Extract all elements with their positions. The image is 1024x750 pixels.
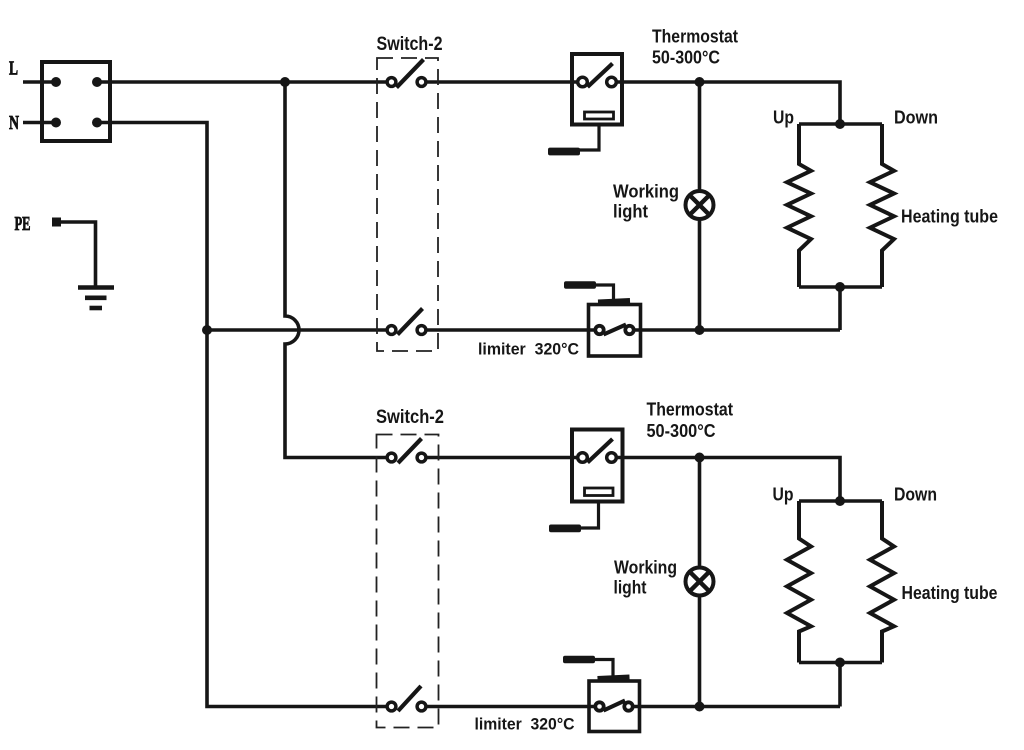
svg-text:Up: Up — [773, 485, 794, 505]
svg-text:Heating tube: Heating tube — [902, 583, 998, 603]
lamp HL1 (working light) — [686, 191, 714, 219]
wire row4 segment B — [427, 705, 594, 709]
thermostat T1 sensor bulb — [548, 148, 580, 156]
node HT1 top feed — [835, 119, 845, 129]
thermostat T2 contacts and lever — [578, 439, 617, 463]
switch S2 pole 1 contacts and lever — [387, 439, 426, 464]
wire row2 segment B — [427, 328, 594, 332]
PE terminal dot — [52, 218, 61, 227]
resistor HT1 Down element — [870, 124, 894, 287]
svg-text:Working: Working — [613, 182, 679, 202]
thermostat T1 capillary wire — [579, 125, 599, 151]
thermostat T2 adjustment bar — [585, 488, 614, 496]
svg-text:light: light — [613, 202, 648, 222]
svg-text:Heating tube: Heating tube — [901, 207, 998, 227]
switch S1 (Switch-2 upper, dashed enclosure) — [377, 58, 438, 351]
switch S2 pole 2 contacts and lever — [387, 686, 426, 711]
node HT2 top feed — [835, 496, 845, 506]
wire heating tube 1 bottom feed — [838, 287, 842, 330]
wire row1 L bus segment C with corner to heating tube 1 — [617, 82, 841, 124]
svg-text:L: L — [9, 58, 18, 80]
lamp HL2 (working light) — [686, 568, 714, 596]
limiter F1 button lid — [598, 301, 630, 303]
switch S1 pole 2 contacts and lever — [387, 309, 426, 335]
svg-text:Working: Working — [614, 558, 677, 578]
wire L input stub — [23, 80, 56, 84]
switch S1 pole 1 contacts and lever — [387, 60, 426, 88]
svg-text:Up: Up — [773, 108, 794, 128]
svg-text:N: N — [9, 112, 19, 134]
ground symbol — [78, 288, 114, 309]
wire row3 segment B — [427, 456, 578, 460]
node lamp1 top junction — [695, 77, 705, 87]
heating tube HT2 top bus — [799, 499, 882, 503]
node HT2 bottom feed — [835, 658, 845, 668]
node lamp1 bottom junction — [695, 325, 705, 335]
svg-text:Down: Down — [894, 108, 938, 128]
heating tube HT1 top bus — [799, 122, 882, 126]
wire lamp2 branch lower — [698, 597, 702, 707]
limiter F2 contacts and lever — [595, 701, 632, 711]
terminal block TB1 — [42, 62, 110, 141]
svg-text:light: light — [614, 578, 647, 598]
svg-text:Switch-2: Switch-2 — [377, 34, 443, 55]
node HT1 bottom feed — [835, 282, 845, 292]
wire lamp2 branch upper — [698, 458, 702, 567]
thermostat T2 body — [572, 430, 623, 502]
wire N input stub — [23, 121, 56, 125]
wire lamp1 branch lower — [698, 220, 702, 330]
heating tube HT2 bottom bus — [799, 661, 882, 665]
wire lamp1 branch upper — [698, 82, 702, 190]
switch S2 (Switch-2 lower, dashed enclosure) — [377, 435, 439, 728]
limiter F1 sensor bulb — [564, 281, 596, 289]
node lamp2 bottom junction — [695, 702, 705, 712]
resistor HT2 Down element — [870, 501, 894, 663]
thermostat T2 sensor bulb — [549, 525, 581, 533]
thermostat T1 contacts and lever — [578, 64, 617, 88]
wire row2 segment A — [207, 328, 386, 332]
wire L branch vertical with crossover hop, into row3 — [285, 82, 386, 458]
limiter F1 capillary wire — [596, 285, 614, 300]
svg-text:Thermostat: Thermostat — [647, 400, 734, 420]
wire row2 segment C — [635, 328, 840, 332]
heating tube HT1 bottom bus — [799, 285, 882, 289]
limiter F2 button lid — [598, 677, 630, 679]
svg-text:Thermostat: Thermostat — [652, 27, 738, 47]
wire row3 segment C with corner to heating tube 2 — [617, 458, 841, 502]
svg-text:PE: PE — [15, 213, 31, 235]
wire row4 segment C — [634, 705, 840, 709]
limiter F1 contacts and lever — [595, 325, 633, 335]
thermostat T1 adjustment bar — [585, 112, 614, 119]
node lamp2 top junction — [695, 453, 705, 463]
node N junction row2 — [202, 325, 212, 335]
resistor HT1 Up element — [787, 124, 811, 287]
wire PE to ground — [57, 222, 96, 287]
thermostat T1 body — [572, 54, 622, 125]
wire N run: row to x=207, down, then row4 left segment — [97, 123, 386, 707]
wire row1 L bus segment A — [97, 80, 386, 84]
wire heating tube 2 bottom feed — [838, 663, 842, 707]
limiter F2 capillary wire — [595, 660, 613, 677]
node L-branch junction — [280, 77, 290, 87]
svg-text:50-300°C: 50-300°C — [647, 421, 716, 441]
wire row1 L bus segment B — [427, 80, 578, 84]
svg-text:50-300°C: 50-300°C — [652, 48, 720, 68]
svg-text:limiter 320°C: limiter 320°C — [478, 340, 579, 359]
resistor HT2 Up element — [787, 501, 811, 663]
svg-text:Switch-2: Switch-2 — [376, 407, 444, 428]
thermostat T2 capillary wire — [580, 502, 599, 529]
limiter F1 body — [589, 305, 641, 357]
svg-text:limiter 320°C: limiter 320°C — [475, 715, 575, 734]
limiter F2 body — [589, 681, 640, 732]
svg-text:Down: Down — [894, 485, 937, 505]
limiter F2 sensor bulb — [563, 656, 595, 663]
